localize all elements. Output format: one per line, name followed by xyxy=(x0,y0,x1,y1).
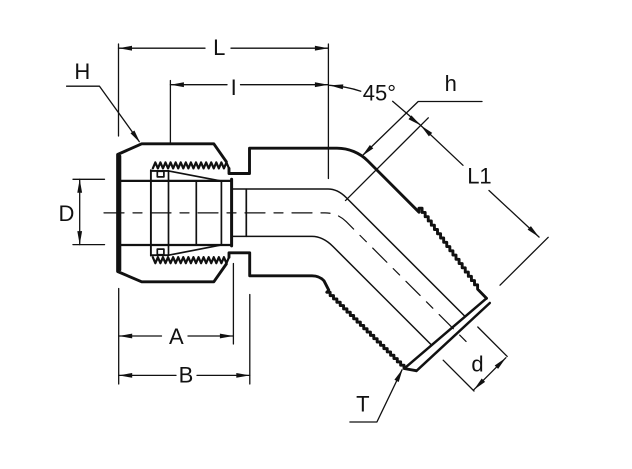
arrowhead I left xyxy=(170,82,184,87)
svg-text:T: T xyxy=(356,391,369,416)
extension line I left xyxy=(169,81,171,144)
tube outer diameter lines xyxy=(119,181,230,245)
arrowhead B right xyxy=(236,373,250,378)
extension line L left xyxy=(118,44,120,136)
extension line A/B left xyxy=(118,289,120,385)
front ferrule back edge xyxy=(168,171,170,255)
h leader xyxy=(363,102,482,155)
arrowhead h leader xyxy=(362,145,373,156)
arrowhead A left xyxy=(119,334,133,339)
body counterbore mouth xyxy=(220,181,222,244)
back ferrule notch bottom xyxy=(157,249,164,255)
arrowhead d lower xyxy=(474,379,485,390)
L1 dimension line xyxy=(421,125,539,237)
arrowhead L right xyxy=(315,46,329,51)
arrowhead D top xyxy=(77,179,82,193)
arrowhead T leader xyxy=(394,369,402,382)
nut male thread zigzag top xyxy=(153,162,229,168)
svg-text:45°: 45° xyxy=(363,81,396,106)
nut male thread zigzag bottom xyxy=(153,257,229,263)
arrowhead D bottom xyxy=(77,231,82,245)
svg-text:H: H xyxy=(74,59,90,84)
dimension D line xyxy=(79,179,81,244)
H leader xyxy=(67,86,140,141)
arrowhead 45 arc xyxy=(330,84,344,89)
dimension A line xyxy=(119,335,234,337)
back ferrule notch top xyxy=(157,171,164,177)
extension line at bend plane xyxy=(327,44,329,179)
d extension line lower xyxy=(443,360,474,391)
arrowhead L1 bottom xyxy=(528,226,540,237)
D extension bottom xyxy=(73,244,105,246)
d extension line upper xyxy=(478,327,507,356)
bore line bottom xyxy=(233,236,432,345)
body shoulder (tube stop) xyxy=(230,179,233,246)
body upper outline: collar, hex flat, bend arc, plain port, thread steps, end chamfer xyxy=(229,148,487,298)
extension line through bend tangent plane xyxy=(346,118,429,201)
arrowhead L left xyxy=(119,46,133,51)
bore line top xyxy=(233,189,465,317)
arrowhead H leader xyxy=(131,131,141,143)
svg-text:A: A xyxy=(169,324,184,349)
T leader xyxy=(350,370,402,422)
arrowhead L1 top xyxy=(421,125,433,136)
svg-text:I: I xyxy=(231,75,237,100)
nut outline xyxy=(118,144,227,282)
arrowhead I right xyxy=(315,82,329,87)
svg-text:D: D xyxy=(59,201,75,226)
ferrule set top edge xyxy=(151,170,169,172)
arrowhead B left xyxy=(119,373,133,378)
front ferrule bottom wedge xyxy=(169,245,222,255)
ferrule set bottom edge xyxy=(151,254,169,256)
svg-text:L1: L1 xyxy=(467,163,491,188)
front ferrule top wedge xyxy=(169,171,222,181)
port end face chamfer edge xyxy=(416,303,489,371)
d dimension line xyxy=(474,358,506,390)
dimension I line xyxy=(170,84,328,86)
arrowhead A right xyxy=(220,334,234,339)
extension line at port end xyxy=(500,237,548,285)
nut internal ferrule-cage line xyxy=(150,170,152,255)
arrowhead d upper xyxy=(495,358,506,369)
svg-text:L: L xyxy=(213,35,225,60)
extension line A right xyxy=(232,264,234,345)
dimension L line xyxy=(119,47,329,49)
port end face outer edge xyxy=(405,298,487,368)
centerline axis dash-dot xyxy=(104,213,469,344)
45-degree leader arc xyxy=(330,85,361,91)
dimension B line xyxy=(119,374,250,376)
45-degree dimension segment xyxy=(393,101,420,125)
body bore step xyxy=(245,189,247,236)
svg-text:d: d xyxy=(471,352,483,377)
D extension top xyxy=(73,178,105,180)
svg-text:h: h xyxy=(445,71,457,96)
arrowhead 45 segment end xyxy=(409,115,421,125)
tube end line xyxy=(195,181,197,244)
body lower outline: collar, hex flat, inner bend, thread steps, end chamfer xyxy=(229,253,416,371)
extension line B right xyxy=(249,295,251,385)
svg-text:B: B xyxy=(179,363,194,388)
nut left end face xyxy=(119,156,121,270)
